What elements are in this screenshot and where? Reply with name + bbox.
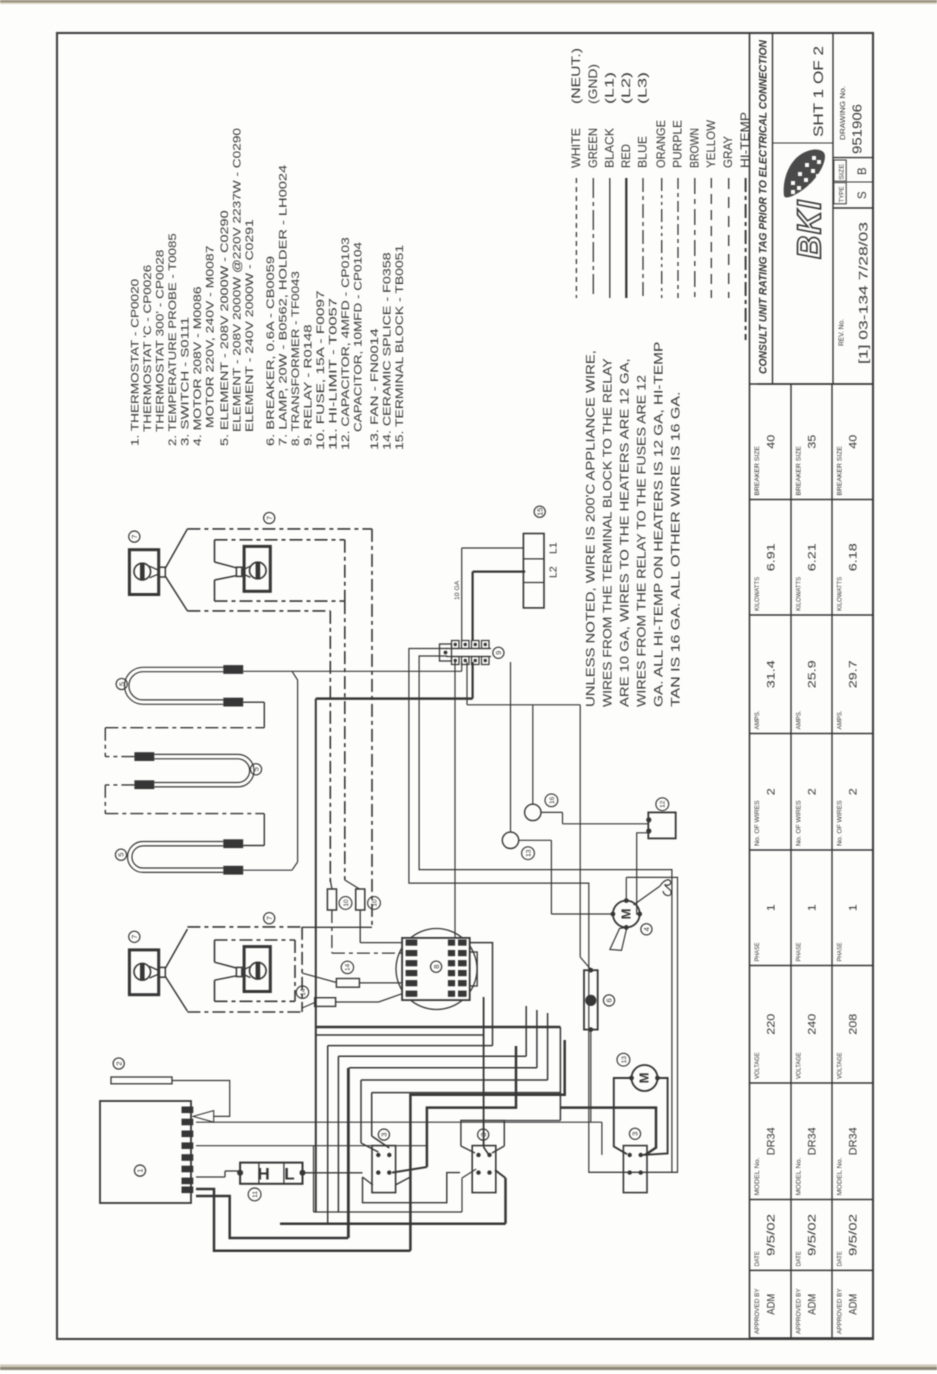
- svg-text:6.18: 6.18: [848, 543, 860, 571]
- svg-text:1: 1: [136, 1169, 145, 1173]
- svg-text:ADM: ADM: [807, 1294, 819, 1315]
- svg-text:7: 7: [265, 916, 274, 920]
- svg-text:PHASE: PHASE: [837, 943, 844, 962]
- diagonal jogs into fuses: [330, 880, 332, 889]
- svg-text:MODEL No.: MODEL No.: [837, 1157, 844, 1195]
- wire staircase: [317, 1034, 484, 1036]
- transformer right-side wires down: [483, 997, 485, 1147]
- breaker (item 6): [584, 970, 598, 1029]
- svg-text:2: 2: [848, 788, 860, 795]
- bottom frame of big loop: [589, 1171, 678, 1173]
- svg-text:KILOWATTS: KILOWATTS: [837, 577, 844, 611]
- svg-text:9: 9: [494, 651, 503, 655]
- svg-text:14: 14: [345, 963, 352, 971]
- lamp holder nub: [159, 967, 165, 977]
- block C thick feed house: [560, 1108, 656, 1155]
- callout 7 (second lamp): [264, 913, 275, 924]
- fan hook: [634, 886, 660, 905]
- switch block A (item 3): [372, 1146, 396, 1193]
- fuse 2 (item 10): [356, 889, 365, 910]
- svg-text:11: 11: [252, 1191, 259, 1198]
- svg-text:BREAKER SIZE: BREAKER SIZE: [796, 446, 803, 495]
- svg-text:12. CAPACITOR, 4MFD - CP0103: 12. CAPACITOR, 4MFD - CP0103: [340, 237, 352, 450]
- svg-text:B: B: [857, 167, 869, 175]
- svg-text:6: 6: [605, 998, 614, 1002]
- svg-text:9. RELAY - R0148: 9. RELAY - R0148: [303, 324, 315, 446]
- svg-text:6. BREAKER, 0.6A - CB0059: 6. BREAKER, 0.6A - CB0059: [265, 256, 277, 446]
- svg-text:12: 12: [660, 800, 667, 808]
- svg-text:L2: L2: [548, 566, 560, 578]
- svg-text:MODEL No.: MODEL No.: [796, 1157, 803, 1195]
- svg-text:SIZE: SIZE: [839, 164, 846, 180]
- wire color legend: [575, 178, 577, 298]
- dash-dot loop outer: [187, 926, 302, 928]
- svg-text:KILOWATTS: KILOWATTS: [796, 577, 803, 611]
- svg-text:29.7: 29.7: [848, 660, 860, 688]
- heater element 1 (item 5): [125, 667, 224, 704]
- long thin wires from thermostat pins: [196, 1121, 602, 1123]
- svg-text:L: L: [284, 1164, 294, 1183]
- svg-text:DR34: DR34: [807, 1127, 819, 1155]
- svg-text:No. OF WIRES: No. OF WIRES: [796, 800, 803, 846]
- svg-text:BLUE: BLUE: [636, 136, 650, 168]
- dash-dot loop inner: [215, 539, 345, 541]
- block A lower house: [363, 1173, 461, 1203]
- svg-text:ADM: ADM: [848, 1294, 860, 1315]
- big routing loops from relay down and around motor: [409, 649, 678, 1173]
- heater element 2 (mirrored): [154, 754, 254, 787]
- svg-text:RED: RED: [619, 144, 633, 168]
- svg-text:BREAKER SIZE: BREAKER SIZE: [837, 446, 844, 495]
- svg-text:10: 10: [371, 899, 378, 907]
- svg-text:M: M: [637, 1073, 652, 1084]
- svg-text:240: 240: [807, 1014, 819, 1035]
- funnel wires: [165, 529, 187, 568]
- title block: [758, 383, 874, 385]
- svg-text:APPROVED BY: APPROVED BY: [796, 1288, 803, 1334]
- svg-text:DR34: DR34: [848, 1127, 860, 1155]
- svg-text:SHT 1 OF 2: SHT 1 OF 2: [811, 46, 826, 137]
- svg-text:10 GA: 10 GA: [454, 580, 461, 600]
- block B upper house: [461, 1121, 504, 1147]
- svg-text:GRAY: GRAY: [721, 136, 735, 168]
- svg-text:No. OF WIRES: No. OF WIRES: [754, 800, 761, 846]
- relay (item 9): [446, 648, 491, 650]
- svg-text:220: 220: [765, 1014, 777, 1035]
- svg-text:(L1): (L1): [602, 72, 616, 104]
- svg-text:13. FAN - FN0014: 13. FAN - FN0014: [369, 328, 381, 450]
- transformer (item 8): [396, 929, 477, 1010]
- thermostat (item 1): [100, 1101, 191, 1203]
- lamp bulb: [134, 563, 151, 580]
- svg-text:H: H: [257, 1164, 269, 1183]
- svg-text:VOLTAGE: VOLTAGE: [754, 1052, 761, 1079]
- svg-text:9/5/02: 9/5/02: [807, 1214, 819, 1256]
- heater element 3: [128, 841, 224, 872]
- svg-text:MOTOR 220V, 240V - M0087: MOTOR 220V, 240V - M0087: [205, 245, 217, 428]
- svg-text:7. LAMP, 20W - B0562, HOLDER -: 7. LAMP, 20W - B0562, HOLDER - LH0024: [278, 165, 290, 446]
- svg-text:PHASE: PHASE: [754, 943, 761, 962]
- thick heater supply L2: [316, 697, 473, 700]
- svg-text:ADM: ADM: [765, 1294, 777, 1315]
- dashed vertical wires from lamp loops: [371, 529, 373, 927]
- svg-text:10. FUSE, 15A - F0097: 10. FUSE, 15A - F0097: [315, 290, 327, 450]
- data table (3 model rows): [749, 33, 751, 1338]
- svg-text:5: 5: [117, 853, 126, 857]
- svg-text:(L2): (L2): [619, 72, 633, 104]
- svg-text:VOLTAGE: VOLTAGE: [837, 1052, 844, 1079]
- top tan border line: [0, 0, 937, 3]
- svg-text:KILOWATTS: KILOWATTS: [754, 577, 761, 611]
- fuse 1 (item 10): [327, 889, 336, 910]
- svg-text:3: 3: [479, 1133, 488, 1137]
- heater feed wires: [243, 670, 462, 672]
- svg-text:208: 208: [848, 1014, 860, 1035]
- svg-text:1. THERMOSTAT - CP0020: 1. THERMOSTAT - CP0020: [130, 279, 142, 446]
- svg-text:7: 7: [265, 516, 274, 520]
- svg-text:9/5/02: 9/5/02: [765, 1214, 777, 1256]
- svg-text:2: 2: [765, 788, 777, 795]
- svg-text:ORANGE: ORANGE: [654, 120, 668, 168]
- svg-text:DATE: DATE: [796, 1251, 803, 1266]
- svg-text:TAN IS 16 GA. ALL OTHER WIRE I: TAN IS 16 GA. ALL OTHER WIRE IS 16 GA.: [669, 392, 683, 707]
- svg-text:(GND): (GND): [586, 64, 600, 104]
- lower motor (item 13): [632, 1065, 658, 1091]
- svg-text:DR34: DR34: [765, 1127, 777, 1155]
- svg-text:S: S: [857, 191, 869, 199]
- svg-text:3: 3: [380, 1133, 389, 1137]
- fan blade: [610, 927, 627, 950]
- svg-text:10: 10: [343, 899, 350, 907]
- svg-text:DRAWING No.: DRAWING No.: [840, 86, 847, 140]
- dash-dot loop inner: [215, 939, 296, 941]
- svg-text:1: 1: [807, 904, 819, 911]
- terminal block (item 15): [523, 534, 544, 608]
- svg-text:13: 13: [621, 1056, 628, 1064]
- relay bottom wires to lamp circles: [510, 662, 512, 832]
- svg-text:PURPLE: PURPLE: [671, 120, 685, 168]
- lamp bulb: [134, 964, 151, 981]
- svg-text:2. TEMPERATURE PROBE - T0085: 2. TEMPERATURE PROBE - T0085: [167, 233, 179, 446]
- svg-text:2: 2: [114, 1061, 123, 1065]
- svg-text:2: 2: [807, 788, 819, 795]
- svg-text:DATE: DATE: [837, 1251, 844, 1266]
- svg-text:5. ELEMENT - 208V 2000W - C029: 5. ELEMENT - 208V 2000W - C0290: [219, 210, 231, 446]
- HI-LIMIT (item 11): [196, 1176, 225, 1178]
- svg-text:951906: 951906: [851, 104, 865, 154]
- thermostat thick output wires: [196, 1189, 410, 1251]
- ceramic splice 1 (item 14): [336, 979, 359, 988]
- lamp indicator (item 7) outer box: [129, 550, 158, 595]
- motor (item 4): [613, 901, 640, 928]
- callout 7: [129, 531, 140, 542]
- svg-text:THERMOSTAT 'C - CP0026: THERMOSTAT 'C - CP0026: [142, 265, 154, 432]
- svg-text:BKI: BKI: [791, 199, 828, 259]
- svg-text:MODEL No.: MODEL No.: [754, 1157, 761, 1195]
- inner funnel: [215, 962, 237, 968]
- funnel wires: [165, 929, 187, 968]
- svg-text:25.9: 25.9: [807, 660, 819, 688]
- svg-text:APPROVED BY: APPROVED BY: [754, 1288, 761, 1334]
- svg-text:ELEMENT - 240V 2000W - C0291: ELEMENT - 240V 2000W - C0291: [244, 219, 256, 432]
- svg-text:M: M: [619, 909, 634, 920]
- svg-text:REV. No.: REV. No.: [839, 319, 846, 346]
- svg-text:14. CERAMIC SPLICE - F0358: 14. CERAMIC SPLICE - F0358: [382, 252, 394, 450]
- svg-text:5: 5: [252, 767, 261, 771]
- svg-text:No. OF WIRES: No. OF WIRES: [837, 800, 844, 846]
- thick mid runs: [316, 1026, 561, 1029]
- ceramic splice 2 (item 14): [315, 998, 336, 1007]
- svg-text:4. MOTOR 208V - M0086: 4. MOTOR 208V - M0086: [192, 286, 204, 446]
- indicator circle B: [502, 832, 518, 848]
- lamp 2 nub: [236, 967, 242, 976]
- svg-text:13: 13: [525, 849, 532, 857]
- svg-text:BREAKER SIZE: BREAKER SIZE: [754, 446, 761, 495]
- lamp indicator (item 7) outer box: [129, 950, 158, 995]
- svg-text:YELLOW: YELLOW: [704, 119, 718, 168]
- svg-text:APPROVED BY: APPROVED BY: [837, 1288, 844, 1334]
- svg-text:WIRES FROM THE TERMINAL BLOCK: WIRES FROM THE TERMINAL BLOCK TO THE REL…: [601, 358, 615, 707]
- lamp holder nub: [159, 567, 165, 577]
- svg-text:35: 35: [807, 435, 819, 449]
- svg-text:7: 7: [130, 535, 139, 539]
- svg-text:7: 7: [130, 935, 139, 939]
- svg-text:ELEMENT - 208V 2000W @220V 223: ELEMENT - 208V 2000W @220V 2237W - C0290: [232, 128, 244, 432]
- svg-text:VOLTAGE: VOLTAGE: [796, 1052, 803, 1079]
- probe arrow: [193, 1111, 214, 1123]
- svg-text:TYPE: TYPE: [839, 186, 846, 202]
- svg-text:WIRES FROM THE RELAY TO THE FU: WIRES FROM THE RELAY TO THE FUSES ARE 12: [635, 375, 649, 707]
- relay outputs down: [461, 662, 463, 671]
- lamp 2 bulb + box: [244, 947, 270, 992]
- svg-text:GA. ALL HI-TEMP ON HEATERS IS: GA. ALL HI-TEMP ON HEATERS IS 12 GA, HI-…: [652, 342, 666, 707]
- svg-text:5: 5: [117, 682, 126, 686]
- svg-text:THERMOSTAT 300' - CP0028: THERMOSTAT 300' - CP0028: [155, 249, 167, 432]
- svg-text:WHITE: WHITE: [569, 128, 583, 168]
- svg-text:AMPS.: AMPS.: [837, 710, 844, 729]
- hi-temp series links between heaters (dash-dot): [105, 756, 134, 758]
- dash-dot loop outer: [187, 528, 372, 530]
- svg-text:[1] 03-134 7/28/03: [1] 03-134 7/28/03: [857, 222, 871, 364]
- svg-text:1: 1: [765, 904, 777, 911]
- switch block C (item 3): [623, 1146, 647, 1193]
- svg-text:UNLESS NOTED, WIRE IS 200'C AP: UNLESS NOTED, WIRE IS 200'C APPLIANCE WI…: [584, 350, 598, 707]
- svg-text:15: 15: [535, 508, 544, 516]
- svg-text:15. TERMINAL BLOCK - TB0051: 15. TERMINAL BLOCK - TB0051: [394, 245, 406, 450]
- svg-text:8: 8: [432, 965, 441, 969]
- lamp 2 bulb + box: [244, 546, 270, 591]
- svg-text:CAPACITOR, 10MFD - CP0104: CAPACITOR, 10MFD - CP0104: [353, 242, 365, 432]
- indicator circle A (item 6 path): [525, 804, 541, 820]
- svg-text:DATE: DATE: [754, 1251, 761, 1266]
- svg-text:AMPS.: AMPS.: [796, 710, 803, 729]
- svg-text:CONSULT UNIT RATING TAG PRIOR: CONSULT UNIT RATING TAG PRIOR TO ELECTRI…: [758, 40, 770, 374]
- svg-text:3. SWITCH - S0111: 3. SWITCH - S0111: [180, 317, 192, 446]
- callout 7: [129, 931, 140, 942]
- staircase verticals down: [327, 1046, 329, 1224]
- svg-text:31.4: 31.4: [765, 660, 777, 688]
- svg-text:8. TRANSFORMER - TF0043: 8. TRANSFORMER - TF0043: [290, 271, 302, 446]
- switch block B (item 3): [472, 1146, 496, 1193]
- svg-text:6.91: 6.91: [765, 543, 777, 571]
- svg-text:(NEUT.): (NEUT.): [569, 48, 583, 104]
- svg-text:GREEN: GREEN: [586, 128, 600, 168]
- svg-text:9/5/02: 9/5/02: [848, 1214, 860, 1256]
- svg-text:16: 16: [549, 796, 556, 804]
- svg-text:14: 14: [300, 988, 307, 996]
- svg-text:4: 4: [642, 927, 651, 931]
- svg-text:40: 40: [848, 435, 860, 449]
- svg-text:1: 1: [848, 904, 860, 911]
- svg-text:PHASE: PHASE: [796, 943, 803, 962]
- temperature probe (item 2): [111, 1077, 172, 1084]
- wires fuses to transformer: [331, 910, 333, 953]
- svg-text:(L3): (L3): [636, 72, 650, 104]
- svg-text:AMPS.: AMPS.: [754, 710, 761, 729]
- svg-text:ARE 10 GA, WIRES TO THE HEATER: ARE 10 GA, WIRES TO THE HEATERS ARE 12 G…: [618, 358, 632, 707]
- svg-text:L1: L1: [548, 542, 560, 554]
- capacitor (item 12): [648, 812, 675, 838]
- svg-text:BROWN: BROWN: [687, 128, 701, 168]
- svg-text:6.21: 6.21: [807, 543, 819, 571]
- svg-text:3: 3: [631, 1132, 640, 1136]
- callout 7 (second lamp): [264, 512, 275, 523]
- svg-text:11. HI-LIMIT - T0057: 11. HI-LIMIT - T0057: [328, 298, 340, 450]
- svg-text:40: 40: [765, 435, 777, 449]
- wires terminal block left: [462, 547, 524, 549]
- svg-text:BLACK: BLACK: [602, 128, 616, 168]
- inner funnel: [215, 562, 237, 568]
- bottom tan border line: [0, 1367, 937, 1370]
- lamp 2 nub: [236, 567, 242, 576]
